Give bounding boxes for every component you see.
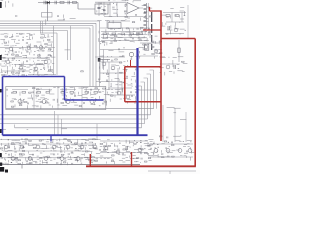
transistor Q6 <box>34 67 38 71</box>
transistor Q23 <box>90 100 94 104</box>
transistor Q5 <box>19 66 23 70</box>
texture opamp inputs <box>108 0 109 1</box>
resistor R47 <box>94 92 98 94</box>
transistor Q56 <box>166 149 170 153</box>
transistor Q43 <box>60 157 64 161</box>
net blue stub x51 <box>50 135 52 141</box>
wire <box>150 156 193 158</box>
resistor R1 <box>60 1 64 3</box>
transistor Q40 <box>11 157 15 161</box>
wire <box>47 4 49 21</box>
wire <box>57 87 59 110</box>
page mark <box>0 153 2 157</box>
wire <box>77 3 79 10</box>
transistor Q41 <box>28 157 32 161</box>
page mark <box>0 89 2 92</box>
wire ground rail <box>0 164 140 166</box>
wire opamp-in v2 <box>103 2 105 16</box>
wire <box>121 82 123 96</box>
wire <box>40 21 42 34</box>
capacitor C11 <box>174 65 176 69</box>
wire top rail <box>38 2 78 4</box>
wire bus-top h5 <box>0 30 68 32</box>
wire res-row h2 <box>101 34 147 36</box>
wire <box>14 64 44 66</box>
net blue h100 <box>65 99 104 101</box>
IC box U2 <box>108 23 121 29</box>
resistor R44 <box>22 92 26 94</box>
transistor Q15 <box>102 62 106 66</box>
net blue main vertical <box>136 48 138 135</box>
wire <box>2 57 50 59</box>
wire <box>110 94 135 96</box>
wire <box>162 63 180 65</box>
wire bus-top drop3 <box>92 26 94 87</box>
texture mid sparse gap <box>65 49 71 51</box>
wire <box>150 143 193 145</box>
transistor Q17 <box>117 91 121 95</box>
wire <box>162 105 164 142</box>
IC box U3 <box>42 13 53 18</box>
wire <box>3 150 90 152</box>
wire <box>107 20 130 22</box>
node A <box>98 58 101 62</box>
box array outline <box>6 87 106 110</box>
wire res-row h1 <box>101 31 147 33</box>
transistor Q11 <box>166 65 170 69</box>
wire <box>81 87 83 110</box>
wire <box>100 152 148 154</box>
capacitor C2 <box>55 1 56 4</box>
resistor R32 <box>178 48 180 53</box>
transistor Q33 <box>52 145 56 149</box>
wire <box>100 140 148 142</box>
wire bus-top drop1 <box>99 21 101 87</box>
wire bus-mid h2 <box>0 114 151 116</box>
wire <box>14 125 16 128</box>
transistor Q10 <box>174 28 178 32</box>
wire <box>12 89 28 91</box>
wire <box>138 89 157 91</box>
wire bus-top drop2 <box>95 23 97 86</box>
texture top bus labels <box>16 15 17 17</box>
transistor Q31 <box>20 145 24 149</box>
wire <box>84 89 100 91</box>
wire <box>0 157 112 159</box>
wire <box>95 1 126 3</box>
wire bus-mid riser1 <box>153 70 155 109</box>
wire bus-mid stub5 <box>138 85 142 87</box>
transistor Q36 <box>93 145 97 149</box>
texture under opamp <box>105 29 107 33</box>
texture bottom-mid <box>107 139 110 141</box>
wire <box>166 21 184 23</box>
texture col-K <box>142 5 147 7</box>
capacitor C10 <box>168 26 170 30</box>
net blue v64 <box>64 77 66 101</box>
wire opamp-in v4 <box>116 2 118 16</box>
transistor Q55 <box>154 149 158 153</box>
wire <box>146 3 148 29</box>
transistor Q13 <box>154 49 158 53</box>
page mark <box>0 55 2 60</box>
wire <box>187 5 189 38</box>
wire <box>28 74 56 76</box>
resistor R10 <box>103 33 107 35</box>
transistor Q7 <box>44 60 48 64</box>
resistor R12 <box>121 33 125 35</box>
wire <box>100 72 126 74</box>
wire res-row h4 <box>101 40 147 42</box>
wire <box>54 111 56 135</box>
net red branch y30 <box>143 29 161 31</box>
wire <box>57 115 59 135</box>
wire <box>181 13 183 23</box>
net red branch y38 <box>161 38 195 40</box>
wire <box>100 27 148 29</box>
wire <box>100 49 137 51</box>
wire bus-mid h3 <box>0 118 148 120</box>
resistor R45 <box>46 92 50 94</box>
wire <box>108 62 110 90</box>
wire <box>100 61 122 63</box>
texture right lower sparse <box>167 107 175 109</box>
page mark <box>0 129 2 133</box>
wire <box>2 70 30 72</box>
texture bottom-right <box>150 140 153 142</box>
wire bottom-right rail <box>148 171 196 174</box>
texture top-left corner <box>1 0 4 2</box>
net VCC-red main vertical <box>160 10 162 141</box>
wire <box>103 50 105 71</box>
wire <box>140 55 158 57</box>
wire opamp-in v3 <box>109 2 111 16</box>
transistor Q50 <box>104 146 108 150</box>
transistor Q34 <box>66 145 70 149</box>
transistor Q42 <box>44 157 48 161</box>
wire <box>0 139 98 141</box>
resistor R23 <box>144 16 147 18</box>
texture mid gap <box>100 42 101 45</box>
wire bus-mid riser3 <box>147 78 149 119</box>
resistor R41 <box>37 92 41 94</box>
texture right-top <box>170 8 173 10</box>
transistor Q3 <box>39 46 43 50</box>
capacitor C1 <box>44 1 45 4</box>
resistor R14 <box>139 33 143 35</box>
inductor L1 <box>145 44 149 50</box>
net red box bottom <box>125 101 161 103</box>
texture box array <box>6 89 7 91</box>
net red box top <box>125 66 162 68</box>
wire bus-mid riser2 <box>150 74 152 115</box>
transistor Q16 <box>111 66 115 70</box>
wire <box>99 63 101 80</box>
resistor R20 <box>144 4 147 6</box>
net red box left <box>124 67 126 102</box>
wire <box>98 59 110 61</box>
wire <box>78 8 95 10</box>
wire <box>21 165 23 169</box>
wire <box>117 68 119 95</box>
wire <box>36 89 52 91</box>
diode D1 <box>47 1 50 4</box>
wire bus-top drop5 <box>67 31 69 61</box>
wire bus-top drop4 <box>89 28 91 87</box>
transistor Q52 <box>138 148 142 152</box>
wire bus-mid stub3 <box>144 77 148 79</box>
op-amp U1 <box>127 3 139 14</box>
wire bus-mid riser5 <box>141 86 143 128</box>
texture left-mid block <box>0 33 4 35</box>
wire <box>60 89 76 91</box>
resistor R46 <box>70 92 74 94</box>
wire <box>156 90 158 109</box>
net red stub x130 <box>130 60 132 67</box>
texture center block <box>100 55 103 57</box>
wire <box>41 21 43 34</box>
wire <box>108 87 132 89</box>
texture between buses <box>2 129 6 131</box>
wire <box>0 143 96 145</box>
transistor Q44 <box>76 157 80 161</box>
relay box K1 <box>95 4 108 14</box>
resistor R42 <box>61 92 65 94</box>
page mark corner <box>0 167 8 173</box>
wire bus-top drop6 <box>56 33 58 75</box>
capacitor C3 <box>68 1 69 4</box>
wire bus-top h1 <box>0 20 100 22</box>
wire <box>104 16 143 18</box>
wire bus-mid h4 <box>0 123 145 125</box>
texture bottom-left <box>0 138 3 141</box>
wire bus-top h2 <box>0 22 96 24</box>
texture above opamp-right <box>126 14 128 17</box>
transistor Q57 <box>178 149 182 153</box>
resistor R22 <box>144 12 147 14</box>
net blue bottom rail <box>3 134 148 136</box>
wire <box>53 26 55 75</box>
wire bus-mid stub4 <box>141 81 145 83</box>
net blue h76 <box>3 76 65 78</box>
transistor Q4 <box>6 60 10 64</box>
wire res-row h3 <box>101 37 147 39</box>
resistor R2 <box>73 1 77 3</box>
wire <box>96 81 122 83</box>
wire <box>106 21 108 28</box>
capacitor C20 <box>126 146 128 150</box>
net red bottom rail <box>86 165 196 167</box>
resistor R13 <box>130 33 134 35</box>
page mark <box>0 163 2 166</box>
transistor Q22 <box>66 100 70 104</box>
texture right-mid <box>160 57 166 59</box>
net red right vertical <box>194 39 196 167</box>
resistor R40 <box>13 92 17 94</box>
resistor R25 <box>144 24 147 26</box>
net blue left vertical <box>2 77 4 136</box>
resistor R43 <box>85 92 89 94</box>
resistor R11 <box>112 33 116 35</box>
transistor Q21 <box>42 100 46 104</box>
net red stub x90 <box>89 154 91 166</box>
wire bus-mid h1 <box>6 108 154 110</box>
wire <box>185 112 187 142</box>
transistor Q20 <box>18 100 22 104</box>
wire <box>61 119 63 135</box>
resistor R24 <box>144 20 147 22</box>
transistor Q58 <box>188 149 192 153</box>
net VCC-red top jog <box>150 7 162 11</box>
net red stub x131 <box>131 152 133 166</box>
wire bus-mid h5 <box>15 127 142 129</box>
transistor Q18 <box>126 95 130 99</box>
wire <box>174 108 176 142</box>
wire <box>147 3 149 29</box>
transistor Q35 <box>80 145 84 149</box>
wire <box>178 40 180 62</box>
wire bus-mid riser4 <box>144 82 146 124</box>
transistor Q12 <box>144 45 148 49</box>
resistor R21 <box>144 8 147 10</box>
wire <box>96 124 98 139</box>
transistor Q1 <box>9 47 13 51</box>
wire <box>171 13 173 23</box>
transistor Q14 <box>129 52 133 56</box>
page mark <box>0 2 2 8</box>
wire <box>140 42 160 44</box>
wire <box>33 87 35 110</box>
wire bus-mid stub1 <box>150 69 154 71</box>
wire bus-top h6 <box>40 32 57 34</box>
wire <box>95 56 125 58</box>
wire opamp-in v1 <box>98 2 100 16</box>
wire <box>163 12 186 14</box>
resistor R30 <box>166 15 170 17</box>
wire <box>0 47 55 49</box>
transistor Q51 <box>116 150 120 154</box>
connector dark bar J1 <box>151 12 152 22</box>
transistor Q32 <box>36 145 40 149</box>
wire bus-top h3 <box>0 25 93 27</box>
wire <box>165 33 184 35</box>
texture mid-right cluster <box>139 37 140 39</box>
wire bus-top h4 <box>0 27 90 29</box>
transistor Q2 <box>27 46 31 50</box>
wire bus-mid stub2 <box>147 73 151 75</box>
wire <box>70 26 72 60</box>
resistor R31 <box>175 15 179 17</box>
transistor Q30 <box>4 145 8 149</box>
